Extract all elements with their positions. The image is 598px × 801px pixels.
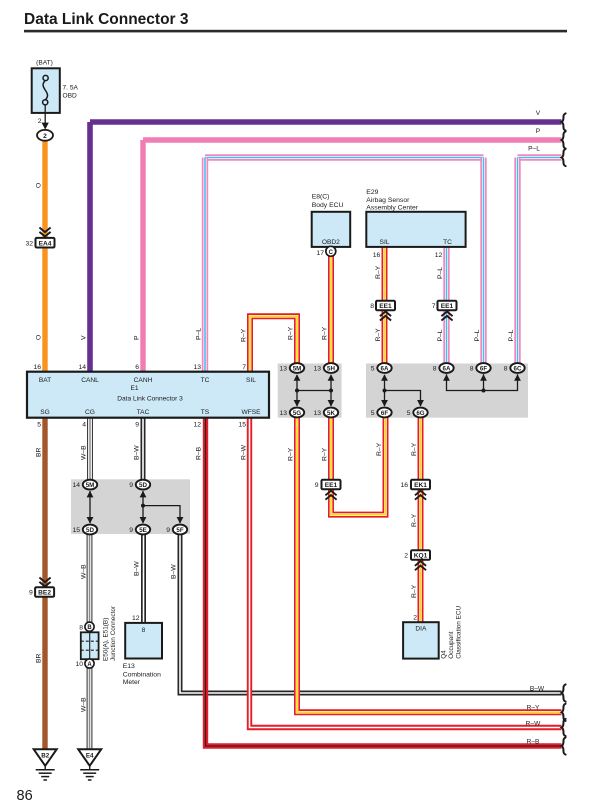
svg-text:8: 8 [370, 303, 374, 310]
wire R-Y 6G to EK1 [418, 413, 424, 481]
svg-text:EK1: EK1 [414, 482, 427, 489]
svg-text:R–Y: R–Y [241, 328, 248, 342]
svg-text:TC: TC [443, 239, 452, 246]
wire P horizontal to right edge [143, 137, 562, 142]
svg-text:8: 8 [504, 366, 508, 373]
svg-text:Airbag Sensor: Airbag Sensor [366, 197, 410, 204]
svg-text:R–Y: R–Y [411, 513, 418, 527]
svg-text:V: V [81, 335, 88, 340]
ECU E13 Combination Meter [123, 615, 162, 686]
svg-text:R–Y: R–Y [527, 705, 540, 712]
svg-text:5G: 5G [293, 410, 301, 417]
svg-text:R–Y: R–Y [322, 447, 329, 461]
svg-text:9: 9 [129, 527, 133, 534]
svg-text:Occupant: Occupant [448, 631, 455, 659]
svg-text:E29: E29 [366, 189, 378, 196]
svg-text:OBD: OBD [63, 93, 78, 100]
svg-text:B–W: B–W [134, 561, 141, 576]
fuse 7.5A OBD [32, 59, 79, 113]
svg-text:6F: 6F [381, 410, 388, 417]
svg-text:SG: SG [40, 409, 50, 416]
wire O vertical EA4 to BAT [42, 247, 47, 374]
svg-text:5: 5 [371, 410, 375, 417]
svg-text:P–L: P–L [508, 329, 515, 341]
wire R-B TS to right edge [206, 418, 562, 746]
wire P-L vertical to 6C [514, 158, 520, 365]
wire P-L TC to 6A [443, 247, 449, 364]
wire R-Y EK1 to KQ1 [418, 489, 424, 550]
svg-text:5D: 5D [139, 482, 147, 489]
svg-text:6C: 6C [514, 365, 522, 372]
wire R-Y EE1 U-turn to 6F [331, 417, 386, 515]
connector EA4 chevron [39, 228, 50, 237]
wire BR BE2 to ground B2 [42, 598, 47, 750]
wire P-L horizontal right edge to 6C drop [518, 154, 562, 160]
svg-text:SIL: SIL [380, 239, 390, 246]
svg-text:P–L: P–L [437, 267, 444, 279]
connector circle C pin 17 [316, 246, 335, 256]
ground B2 [34, 749, 57, 780]
svg-text:12: 12 [193, 422, 201, 429]
junction block shading box 1 [278, 364, 342, 418]
svg-text:CANH: CANH [134, 377, 153, 384]
svg-text:O: O [36, 183, 43, 188]
junction connector 6A pin 5 [371, 363, 392, 373]
svg-text:DIA: DIA [415, 625, 427, 632]
svg-text:BR: BR [36, 653, 43, 663]
junction connector 6G pin 5 [407, 408, 428, 418]
wire R-Y KQ1 to DIA [418, 560, 424, 624]
svg-text:14: 14 [72, 482, 80, 489]
ECU E29 Airbag Sensor Assembly Center [366, 189, 465, 247]
svg-text:14: 14 [78, 364, 86, 371]
svg-text:16: 16 [33, 364, 41, 371]
wire O vertical fuse to EA4 [42, 141, 47, 238]
svg-text:13: 13 [279, 410, 287, 417]
E1 pin numbers bottom [37, 422, 246, 429]
junction connector 6C pin 8 [504, 363, 525, 373]
svg-text:16: 16 [400, 482, 408, 489]
svg-text:15: 15 [72, 527, 80, 534]
svg-text:9: 9 [129, 482, 133, 489]
svg-text:8: 8 [433, 366, 437, 373]
svg-text:BE2: BE2 [38, 590, 51, 597]
svg-text:EE1: EE1 [441, 303, 454, 310]
svg-text:EE1: EE1 [325, 482, 338, 489]
svg-text:OBD2: OBD2 [322, 239, 340, 246]
svg-text:TC: TC [201, 377, 210, 384]
svg-text:R–Y: R–Y [376, 442, 383, 456]
svg-text:12: 12 [132, 615, 140, 622]
junction connector 6F pin 5 [371, 408, 392, 418]
svg-text:7: 7 [432, 303, 436, 310]
connector BE2 chevron [39, 578, 50, 587]
svg-text:13: 13 [193, 364, 201, 371]
svg-text:Assembly Center: Assembly Center [366, 204, 418, 211]
svg-text:5H: 5H [327, 365, 335, 372]
svg-text:6A: 6A [381, 365, 389, 372]
svg-text:R–W: R–W [241, 444, 248, 460]
svg-text:WFSE: WFSE [241, 409, 261, 416]
svg-text:5D: 5D [86, 527, 94, 534]
connector BE2 pin 9 [29, 587, 54, 597]
junction block 1 internal links [294, 374, 335, 406]
connector KQ1 pin 2 [404, 550, 430, 570]
svg-text:Meter: Meter [123, 679, 141, 686]
E1 pin numbers top [33, 364, 246, 371]
svg-text:C: C [329, 250, 334, 256]
wire B-W 5F to right edge [180, 530, 562, 694]
svg-text:E4: E4 [86, 753, 94, 760]
svg-text:86: 86 [17, 788, 33, 801]
svg-text:O: O [36, 335, 43, 340]
wire V horizontal to right edge [90, 119, 562, 125]
connector EK1 pin 16 [400, 480, 430, 500]
svg-text:P: P [134, 335, 141, 340]
svg-text:A: A [87, 662, 92, 668]
svg-text:9: 9 [166, 527, 170, 534]
wire V vertical to CANL [87, 122, 93, 374]
junction block 3 internal links [87, 491, 184, 524]
connector EE1 pin 7 [432, 301, 457, 321]
svg-text:Combination: Combination [123, 672, 161, 679]
svg-text:(BAT): (BAT) [36, 59, 53, 66]
svg-text:EE1: EE1 [379, 303, 392, 310]
junction connector 5F pin 9 [166, 525, 187, 535]
svg-text:5: 5 [371, 366, 375, 373]
wire R-Y 5G to right edge [297, 413, 562, 713]
wire R-Y 5K to EE1 [328, 413, 334, 481]
svg-text:R–B: R–B [196, 446, 203, 460]
svg-text:KQ1: KQ1 [414, 553, 428, 560]
ECU E8(C) Body ECU [312, 194, 351, 247]
svg-text:5K: 5K [327, 410, 335, 417]
ECU Q4 Occupant Classification ECU (DIA) [403, 605, 462, 658]
wire BR SG to BE2 [42, 418, 47, 587]
wire P-L vertical to 6F [480, 158, 486, 365]
svg-text:V: V [536, 110, 541, 117]
wire W-B 5D to junction E50 [87, 530, 93, 624]
svg-text:R–B: R–B [527, 738, 540, 745]
connector E1 Data Link Connector 3 [27, 372, 269, 418]
svg-text:Q4: Q4 [440, 650, 447, 659]
svg-text:P–L: P–L [196, 328, 203, 340]
fuse output pin 2 arrow [38, 113, 49, 130]
svg-text:15: 15 [238, 422, 246, 429]
svg-text:6F: 6F [480, 365, 487, 372]
svg-text:9: 9 [135, 422, 139, 429]
svg-text:5E: 5E [139, 527, 147, 534]
wire P vertical to CANH [140, 140, 145, 374]
svg-text:Data Link Connector 3: Data Link Connector 3 [117, 396, 183, 403]
svg-text:6: 6 [135, 364, 139, 371]
svg-text:8: 8 [79, 624, 83, 631]
junction connector 5H [313, 363, 338, 373]
svg-text:CG: CG [85, 409, 95, 416]
junction connector 5E pin 9 [129, 525, 150, 535]
svg-text:32: 32 [25, 240, 33, 247]
junction connector 5M [279, 363, 304, 373]
svg-text:13: 13 [313, 366, 321, 373]
svg-text:TAC: TAC [137, 409, 150, 416]
svg-text:2: 2 [43, 133, 47, 140]
rotated wire color labels [36, 183, 516, 712]
svg-text:17: 17 [316, 250, 324, 257]
svg-text:16: 16 [373, 252, 381, 259]
svg-text:P–L: P–L [437, 329, 444, 341]
svg-text:B2: B2 [41, 753, 49, 760]
svg-text:5: 5 [37, 422, 41, 429]
svg-text:BAT: BAT [39, 377, 51, 384]
svg-text:9: 9 [29, 590, 33, 597]
junction connector E50(A) E51(B) [75, 605, 116, 668]
junction connector 5M pin 14 [72, 480, 97, 490]
junction connector 6F pin 8 [470, 363, 491, 373]
svg-text:BR: BR [36, 447, 43, 457]
svg-text:E8(C): E8(C) [312, 194, 330, 201]
svg-text:5F: 5F [176, 527, 183, 534]
svg-text:8: 8 [142, 627, 146, 634]
junction connector 6A pin 8 [433, 363, 454, 373]
wire R-Y OBD2 C to 5H [328, 255, 334, 364]
wire P-L vertical to TC [202, 158, 208, 374]
svg-text:6G: 6G [416, 410, 424, 417]
svg-text:P–L: P–L [474, 329, 481, 341]
svg-text:Classification ECU: Classification ECU [455, 605, 462, 658]
svg-text:13: 13 [279, 366, 287, 373]
svg-text:E1: E1 [130, 385, 138, 392]
svg-text:13: 13 [313, 410, 321, 417]
svg-text:5M: 5M [293, 365, 302, 372]
pin 12 label E29 TC [435, 252, 443, 259]
svg-text:R–Y: R–Y [411, 584, 418, 598]
wire P-L horizontal from TC to 6F drop [205, 154, 484, 160]
ground E4 [78, 749, 101, 780]
junction block shading box 3 [71, 479, 190, 534]
svg-text:2: 2 [38, 118, 42, 125]
svg-text:12: 12 [435, 252, 443, 259]
connector EA4 [25, 238, 54, 248]
svg-text:10: 10 [75, 661, 83, 668]
connector EE1 pin 9 [315, 480, 341, 500]
junction block shading box 2 [366, 364, 528, 418]
svg-text:W–B: W–B [81, 445, 88, 460]
junction connector 5D pin 9 [129, 480, 150, 490]
wire R-Y loop SIL to 5M [250, 316, 297, 371]
svg-text:4: 4 [82, 422, 86, 429]
junction connector 5G [279, 408, 304, 418]
svg-text:8: 8 [470, 366, 474, 373]
junction connector 5K [313, 408, 338, 418]
svg-text:R–Y: R–Y [375, 265, 382, 279]
wire W-B junction to ground E4 [87, 667, 93, 750]
wire R-Y SIL to 6A [382, 247, 388, 364]
svg-text:E50(A), E51(B): E50(A), E51(B) [102, 618, 109, 661]
svg-text:7. 5A: 7. 5A [63, 84, 79, 91]
svg-text:B–W: B–W [134, 445, 141, 460]
connector circle 2 [37, 130, 53, 141]
svg-text:7: 7 [242, 364, 246, 371]
wire W-B CG to 5M [87, 418, 93, 481]
title: Data Link Connector 3 [24, 11, 567, 32]
connector EE1 pin 8 [370, 301, 395, 321]
junction connector 5D pin 15 [72, 525, 97, 535]
svg-text:P: P [536, 128, 541, 135]
svg-text:2: 2 [404, 553, 408, 560]
wire B-W 5E to E13 [141, 530, 146, 624]
svg-text:6A: 6A [443, 365, 451, 372]
continuation squiggles right edge [562, 113, 566, 754]
svg-text:W–B: W–B [81, 697, 88, 712]
svg-text:2: 2 [413, 615, 417, 622]
svg-text:Body ECU: Body ECU [312, 202, 344, 209]
svg-text:B–W: B–W [530, 686, 545, 693]
junction block 2 internal links [381, 374, 521, 406]
svg-text:Junction Connector: Junction Connector [110, 605, 117, 661]
svg-text:TS: TS [201, 409, 210, 416]
svg-text:5M: 5M [86, 482, 95, 489]
svg-text:R–Y: R–Y [288, 447, 295, 461]
svg-text:R–Y: R–Y [375, 328, 382, 342]
svg-text:Data Link Connector 3: Data Link Connector 3 [24, 11, 189, 28]
svg-text:B–W: B–W [171, 564, 178, 579]
wire B-W TAC to 5D [141, 418, 146, 481]
pin 16 label E29 SIL [373, 252, 381, 259]
wire R-W WFSE to right edge [250, 418, 562, 728]
svg-text:R–Y: R–Y [411, 442, 418, 456]
svg-text:W–B: W–B [81, 564, 88, 579]
svg-text:5: 5 [407, 410, 411, 417]
svg-text:R–W: R–W [526, 721, 541, 728]
svg-text:SIL: SIL [246, 377, 256, 384]
svg-text:E13: E13 [123, 663, 135, 670]
page number 86 [17, 788, 33, 801]
svg-text:EA4: EA4 [39, 240, 52, 247]
svg-text:R–Y: R–Y [322, 326, 329, 340]
svg-text:9: 9 [315, 482, 319, 489]
svg-text:R–Y: R–Y [288, 326, 295, 340]
horizontal wire labels right [526, 110, 545, 745]
svg-text:CANL: CANL [81, 377, 99, 384]
svg-text:B: B [87, 625, 92, 631]
svg-text:P–L: P–L [528, 146, 540, 153]
